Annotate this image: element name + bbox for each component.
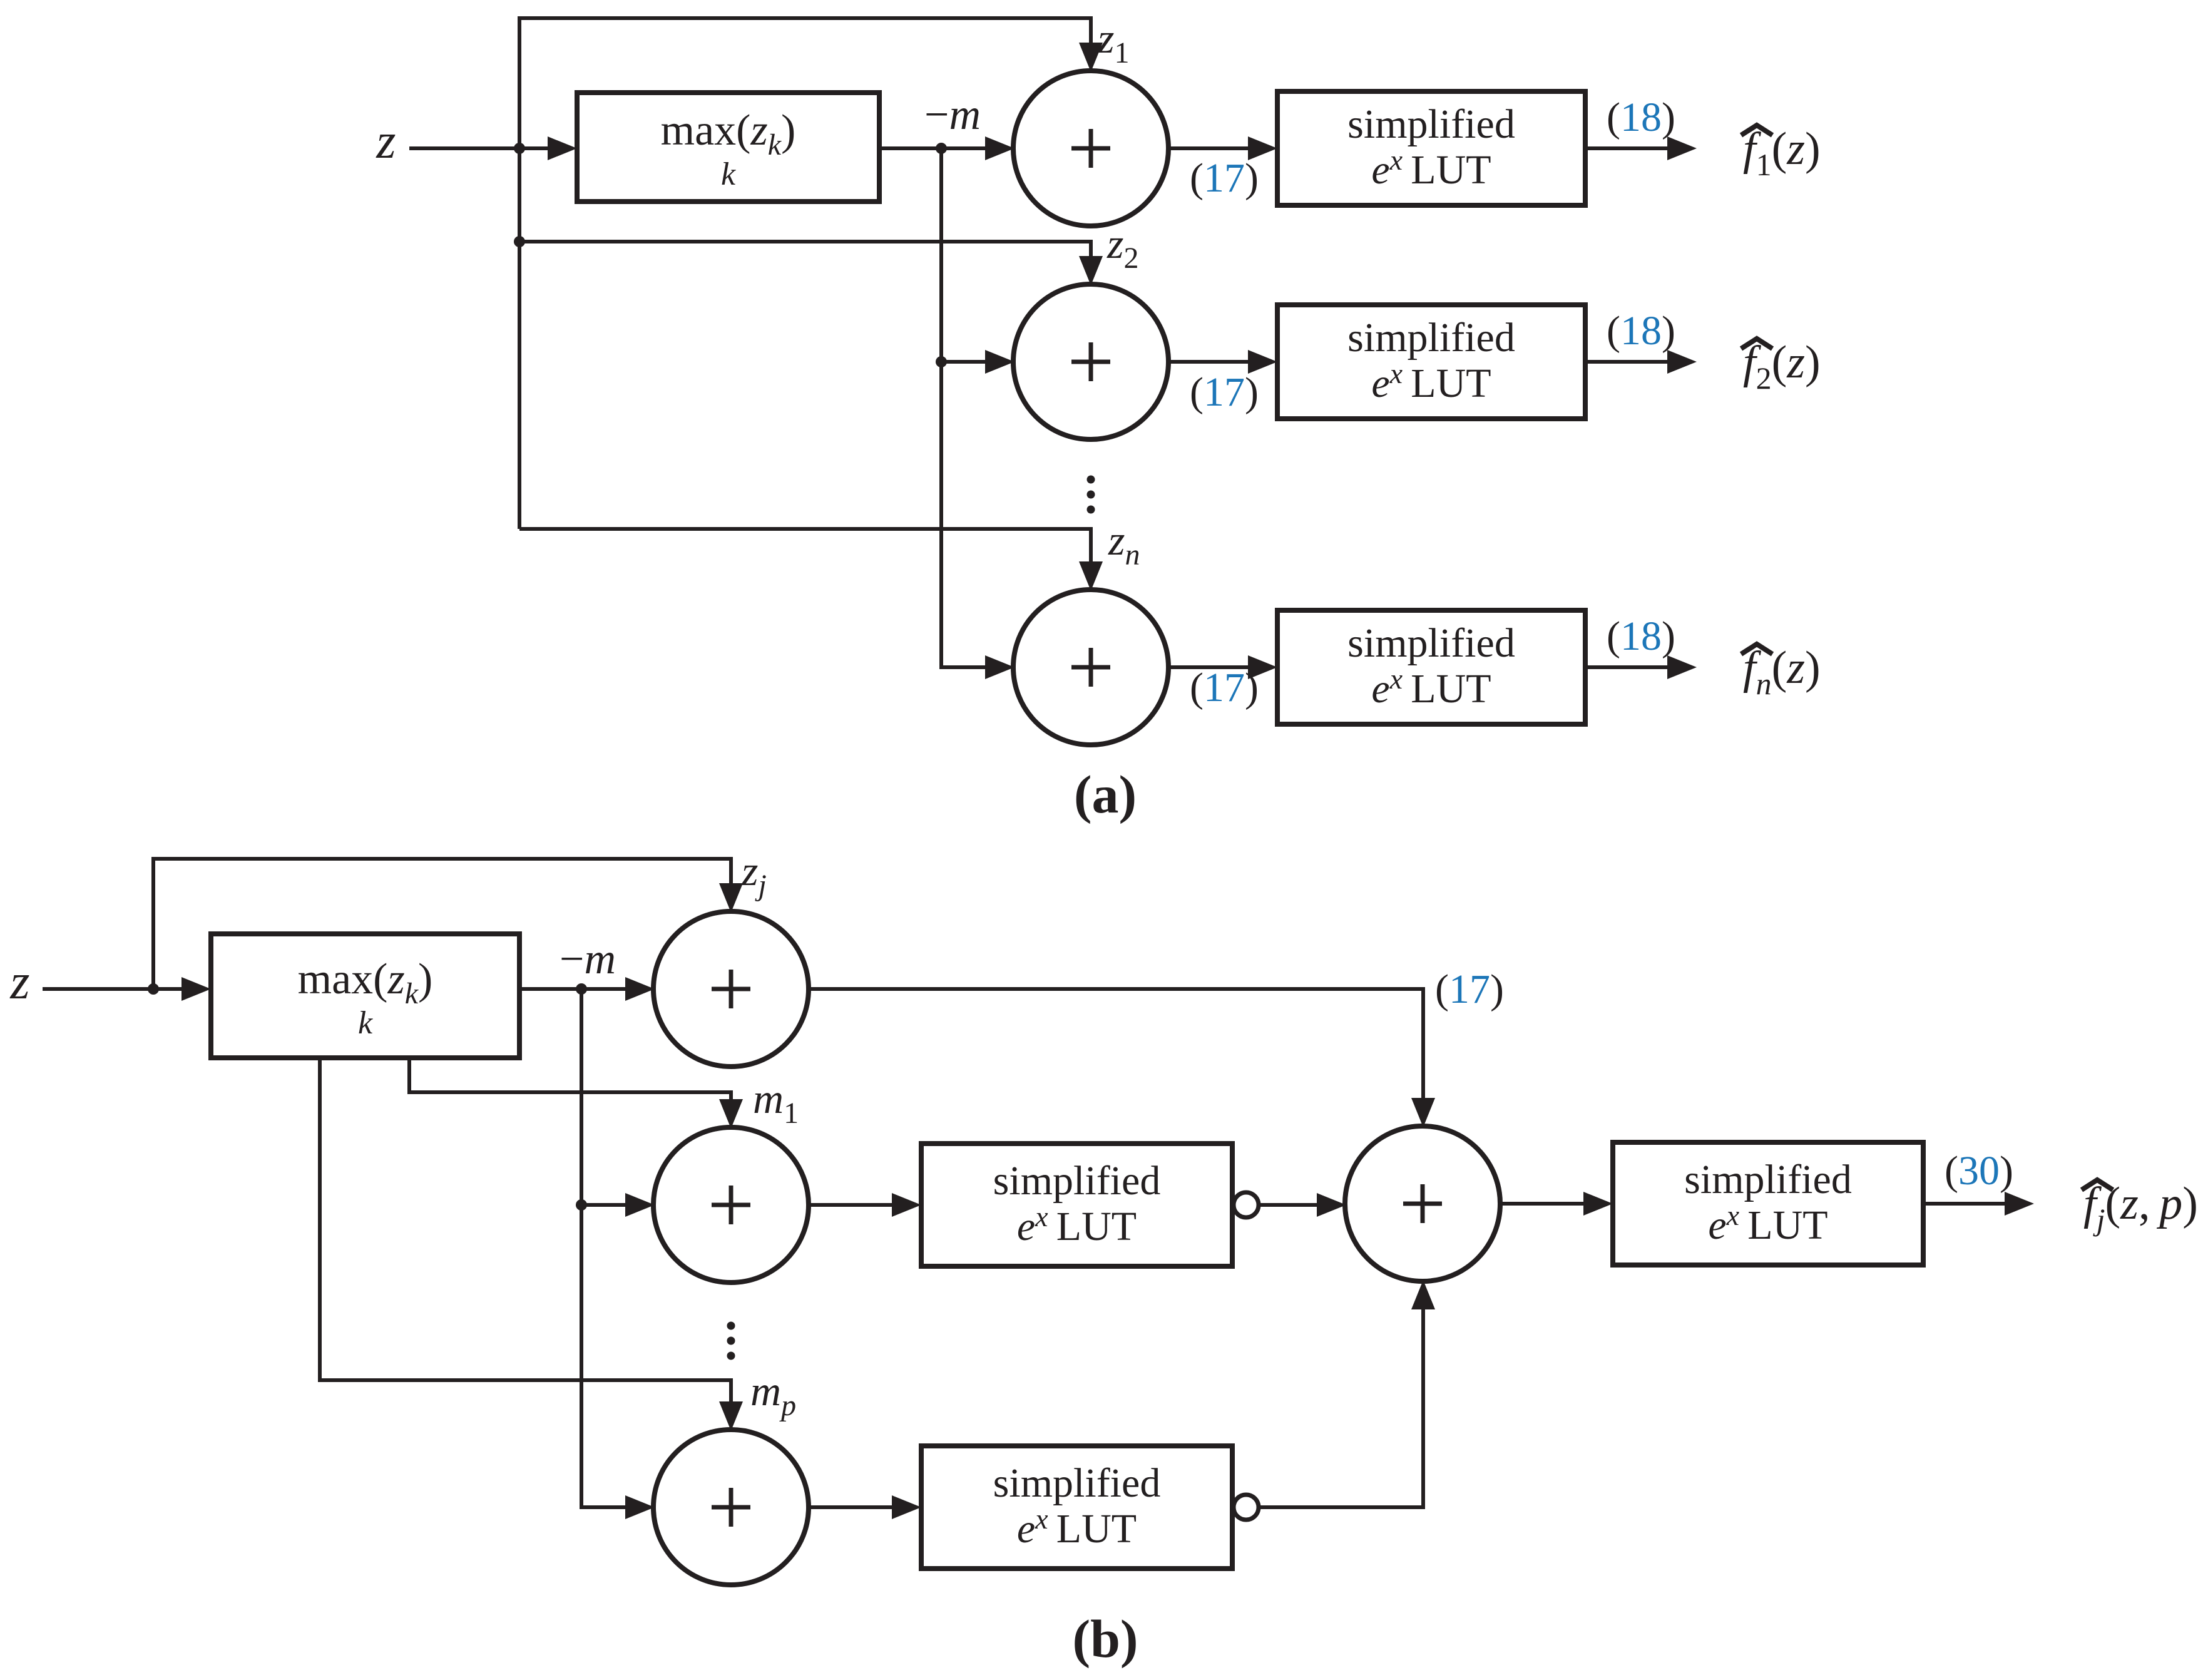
svg-text:(30): (30) bbox=[1945, 1148, 2013, 1194]
svg-text:simplified: simplified bbox=[993, 1460, 1161, 1506]
svg-text:simplified: simplified bbox=[1684, 1157, 1852, 1202]
svg-text:ex LUT: ex LUT bbox=[1371, 663, 1491, 712]
svg-text:(a): (a) bbox=[1074, 764, 1137, 824]
svg-text:(17): (17) bbox=[1435, 966, 1504, 1012]
svg-text:z: z bbox=[9, 955, 29, 1010]
svg-text:simplified: simplified bbox=[1347, 315, 1515, 361]
svg-text:(17): (17) bbox=[1190, 369, 1259, 415]
svg-text:ex LUT: ex LUT bbox=[1371, 144, 1491, 193]
svg-text:ex LUT: ex LUT bbox=[1708, 1199, 1827, 1248]
svg-text:fn(z): fn(z) bbox=[1743, 642, 1821, 701]
svg-text:−m: −m bbox=[924, 91, 981, 139]
svg-text:simplified: simplified bbox=[1347, 101, 1515, 147]
svg-text:(17): (17) bbox=[1190, 665, 1259, 710]
svg-text:simplified: simplified bbox=[993, 1158, 1161, 1204]
svg-text:z: z bbox=[376, 114, 396, 169]
svg-text:(18): (18) bbox=[1607, 95, 1675, 140]
svg-text:simplified: simplified bbox=[1347, 620, 1515, 666]
svg-text:k: k bbox=[358, 1005, 373, 1041]
svg-text:(18): (18) bbox=[1607, 308, 1675, 354]
svg-text:f2(z): f2(z) bbox=[1743, 337, 1821, 396]
svg-text:ex LUT: ex LUT bbox=[1017, 1201, 1137, 1249]
svg-text:ex LUT: ex LUT bbox=[1371, 357, 1491, 406]
svg-text:k: k bbox=[721, 156, 736, 192]
svg-text:ex LUT: ex LUT bbox=[1017, 1503, 1137, 1552]
svg-text:(18): (18) bbox=[1607, 613, 1675, 659]
svg-text:−m: −m bbox=[560, 935, 616, 983]
svg-text:(b): (b) bbox=[1072, 1609, 1138, 1669]
svg-text:f1(z): f1(z) bbox=[1743, 123, 1821, 182]
svg-text:(17): (17) bbox=[1190, 155, 1259, 201]
